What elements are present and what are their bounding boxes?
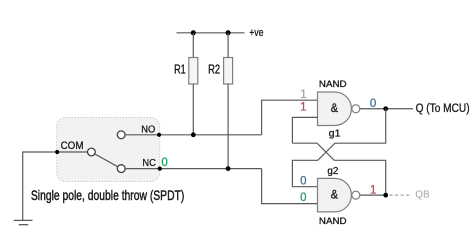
wire R1 top lead — [192, 33, 194, 58]
wire NC drop to g2 input B — [262, 169, 318, 204]
nand-gate g1 body — [318, 92, 352, 126]
wire R2 bottom lead — [227, 84, 229, 169]
nand-gate g2 bubble — [352, 191, 360, 199]
svg-text:1: 1 — [370, 184, 376, 196]
svg-text:0: 0 — [161, 157, 167, 169]
svg-text:NAND: NAND — [319, 79, 347, 89]
nand-gate g1 bubble — [352, 105, 360, 113]
svg-text:+ve: +ve — [249, 27, 263, 39]
svg-text:QB: QB — [415, 190, 430, 201]
wire R1 bottom lead — [192, 84, 194, 135]
wire QB dashed stub — [390, 194, 411, 196]
svg-text:g1: g1 — [329, 127, 341, 139]
wire COM to ground — [23, 152, 58, 220]
wire g1 input B — [292, 117, 317, 143]
switch lever — [95, 154, 118, 167]
pin NC contact circle — [117, 165, 125, 173]
resistor R1 — [189, 58, 198, 85]
svg-text:NO: NO — [141, 124, 155, 135]
svg-text:NAND: NAND — [319, 216, 347, 226]
wire R2 top lead — [227, 33, 229, 58]
wire g1 output — [360, 108, 413, 110]
svg-text:Single pole, double throw (SPD: Single pole, double throw (SPDT) — [31, 187, 184, 203]
svg-text:1: 1 — [300, 89, 306, 101]
svg-text:1: 1 — [300, 102, 306, 114]
svg-text:g2: g2 — [327, 165, 338, 177]
svg-text:Q (To MCU): Q (To MCU) — [416, 103, 470, 115]
node NC box terminal — [158, 167, 162, 171]
wire g2 output — [360, 194, 386, 196]
wire NO to R1 junction — [125, 134, 261, 136]
svg-text:COM: COM — [61, 140, 84, 152]
wire +ve power rail — [177, 32, 245, 34]
switch SW1 body (SPDT box) — [57, 118, 160, 182]
node COM terminal dot — [55, 150, 59, 154]
nand-gate g2 body — [318, 178, 352, 212]
node junction NC-R2 — [226, 166, 231, 171]
svg-text:0: 0 — [300, 175, 306, 187]
node junction rail-R1 — [191, 30, 196, 35]
svg-text:R1: R1 — [174, 63, 186, 77]
svg-text:R2: R2 — [208, 63, 220, 77]
wire NO riser to g1 input A — [262, 100, 318, 135]
node Q junction — [383, 106, 388, 111]
wire Q cross-couple to g2 input A — [292, 109, 385, 187]
wire NC line — [125, 168, 261, 170]
svg-text:NC: NC — [142, 158, 156, 169]
node QB junction — [383, 193, 388, 198]
wire COM lead — [57, 151, 87, 153]
node junction NO-R1 — [191, 132, 196, 137]
resistor R2 — [224, 58, 233, 85]
pin COM contact circle — [88, 148, 96, 156]
wire QB cross-couple to g1 input B — [292, 143, 385, 195]
svg-text:0: 0 — [300, 192, 306, 204]
svg-text:&: & — [331, 188, 338, 202]
svg-text:0: 0 — [370, 98, 376, 110]
node NO box terminal — [157, 133, 161, 137]
pin NO contact circle — [117, 131, 125, 139]
ground — [14, 219, 33, 221]
svg-text:&: & — [331, 101, 338, 115]
node junction rail-R2 — [226, 30, 231, 35]
